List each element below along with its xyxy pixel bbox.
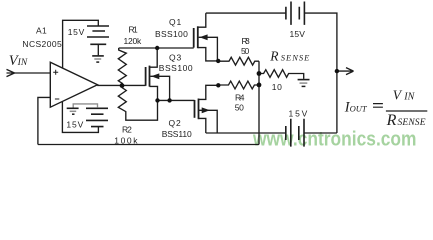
transistor Q3 BSS100 bbox=[146, 66, 170, 101]
svg-text:15V: 15V bbox=[289, 109, 308, 119]
wire top-right to right rail bbox=[304, 13, 337, 133]
svg-text:Q3: Q3 bbox=[169, 53, 181, 63]
transistor Q1 BSS100 bbox=[194, 13, 219, 61]
svg-text:IN: IN bbox=[403, 92, 415, 103]
resistor R3 50 bbox=[218, 57, 259, 65]
wire op-amp V- supply bbox=[62, 102, 98, 133]
resistor R4 50 bbox=[218, 81, 259, 89]
node op-amp out / R1 / R2 bbox=[120, 83, 125, 88]
svg-text:R: R bbox=[386, 112, 397, 129]
node R4 right bbox=[257, 83, 262, 88]
resistor R2 100k bbox=[118, 86, 157, 121]
node right rail / IOUT arrow bbox=[335, 69, 339, 73]
wire VIN input to op-amp + bbox=[7, 72, 51, 74]
svg-text:SENSE: SENSE bbox=[398, 118, 426, 128]
resistor R1 120k bbox=[118, 48, 126, 86]
svg-text:50: 50 bbox=[241, 46, 249, 56]
svg-text:BSS100: BSS100 bbox=[155, 29, 188, 39]
node VIN arrowhead bbox=[7, 69, 15, 76]
svg-text:R1: R1 bbox=[129, 25, 138, 35]
svg-text:100k: 100k bbox=[114, 135, 138, 145]
battery B3 15V top-right bbox=[286, 7, 299, 20]
wire op-amp inverting input to feedback bbox=[38, 97, 50, 144]
svg-text:10: 10 bbox=[272, 82, 282, 92]
wire op-amp V+ supply bbox=[63, 20, 99, 68]
battery B2 15V bottom-left bbox=[86, 108, 108, 126]
wire feedback bottom rail bbox=[38, 144, 259, 146]
label IOUT formula bbox=[344, 88, 428, 129]
battery B1 15V top-left bbox=[87, 26, 109, 44]
wire gray jog battery+ to ground (bottom-left) bbox=[73, 104, 97, 108]
ground (top-left) bbox=[92, 55, 104, 57]
svg-text:SENSE: SENSE bbox=[281, 53, 310, 63]
node Q3 source / R2 bbox=[155, 98, 159, 102]
svg-text:15V: 15V bbox=[290, 29, 306, 39]
svg-text:BSS100: BSS100 bbox=[159, 63, 193, 73]
svg-text:R4: R4 bbox=[235, 92, 245, 102]
svg-text:NCS2005: NCS2005 bbox=[22, 39, 62, 49]
svg-text:120k: 120k bbox=[124, 36, 143, 46]
wire op-amp output bbox=[97, 84, 145, 86]
svg-text:50: 50 bbox=[235, 103, 244, 113]
wire bottom rail to battery B4 bbox=[206, 132, 286, 134]
node Q3 body bbox=[167, 98, 171, 102]
svg-text:R3: R3 bbox=[242, 36, 250, 46]
node Q1 source / body / R3 bbox=[216, 59, 220, 63]
op-amp A1 triangle bbox=[50, 62, 97, 107]
transistor Q2 BSS110 bbox=[195, 85, 219, 133]
resistor RSENSE 10 bbox=[259, 70, 304, 79]
node junction dots bbox=[120, 46, 339, 103]
ground (bottom-left) bbox=[67, 107, 79, 109]
node Q2 source / R4 bbox=[216, 83, 220, 87]
battery B4 15V bottom-right bbox=[286, 126, 299, 140]
wire sense node vertical bbox=[258, 61, 260, 144]
node RSENSE left bbox=[257, 71, 262, 76]
wire R1 top to Q1 gate bbox=[119, 47, 194, 49]
wire Q3 drain branch bbox=[150, 48, 158, 67]
svg-text:Q2: Q2 bbox=[169, 118, 181, 128]
wire Q3 source/body to Q2 gate bbox=[158, 99, 195, 101]
svg-text:BSS110: BSS110 bbox=[162, 129, 192, 139]
svg-text:Q1: Q1 bbox=[169, 17, 181, 27]
node R1 top / Q3 drain / Q1 gate bbox=[155, 46, 159, 50]
svg-text:A1: A1 bbox=[36, 26, 47, 36]
svg-text:15V: 15V bbox=[66, 120, 83, 130]
svg-text:R2: R2 bbox=[122, 124, 132, 134]
svg-text:15V: 15V bbox=[68, 27, 85, 37]
svg-text:R: R bbox=[269, 49, 279, 64]
svg-text:www.cntronics.com: www.cntronics.com bbox=[252, 129, 416, 151]
wire Q1 drain to top rail bbox=[206, 12, 286, 14]
wire battery to ground bbox=[97, 44, 99, 55]
node IOUT arrow on right rail bbox=[337, 68, 354, 75]
op-amp +/- signs bbox=[53, 70, 59, 99]
ground (RSENSE) bbox=[298, 79, 310, 81]
